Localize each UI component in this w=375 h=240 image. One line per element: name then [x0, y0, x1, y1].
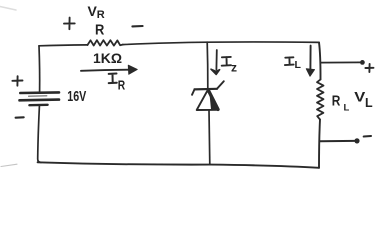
svg-text:L: L [365, 96, 373, 110]
svg-text:1KΩ: 1KΩ [93, 50, 122, 66]
svg-text:16V: 16V [67, 88, 86, 105]
svg-text:L: L [344, 103, 350, 114]
svg-text:R: R [95, 22, 104, 39]
svg-text:R: R [332, 93, 341, 110]
svg-text:z: z [231, 61, 237, 75]
svg-text:R: R [97, 9, 105, 21]
svg-text:R: R [118, 79, 125, 93]
svg-text:L: L [295, 59, 302, 71]
